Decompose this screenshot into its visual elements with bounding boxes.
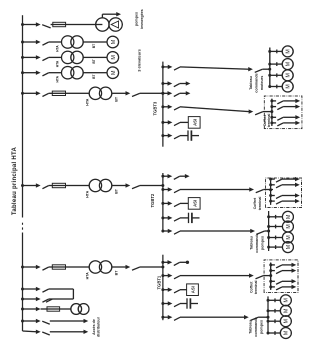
svg-text:3 élévateurs: 3 élévateurs [137, 49, 142, 72]
svg-text:terminal: terminal [267, 114, 271, 128]
svg-text:HTA: HTA [86, 190, 90, 198]
svg-text:pompes: pompes [260, 236, 264, 250]
svg-text:Tableau: Tableau [249, 235, 253, 249]
svg-text:BT: BT [115, 270, 119, 276]
svg-text:BT: BT [92, 44, 96, 48]
svg-text:pompes: pompes [135, 12, 139, 26]
svg-text:Coffret: Coffret [249, 281, 253, 293]
svg-text:Coffret: Coffret [253, 197, 257, 209]
svg-text:M: M [286, 224, 292, 228]
svg-text:M: M [284, 331, 290, 335]
svg-text:immergées: immergées [140, 9, 144, 28]
svg-text:HTA: HTA [86, 272, 90, 280]
svg-text:terminal: terminal [258, 197, 262, 211]
svg-text:M: M [286, 215, 292, 219]
svg-text:BT: BT [92, 59, 96, 63]
svg-text:ASI: ASI [191, 286, 196, 293]
svg-text:Accès de: Accès de [92, 319, 96, 335]
svg-text:M: M [111, 70, 117, 75]
svg-text:Tableau: Tableau [249, 75, 253, 89]
svg-text:M: M [284, 298, 290, 302]
svg-text:BT: BT [92, 75, 96, 79]
svg-text:M: M [111, 55, 117, 60]
svg-text:M: M [284, 319, 290, 323]
svg-text:M: M [284, 309, 290, 313]
svg-text:M: M [286, 245, 292, 249]
svg-text:HTA: HTA [86, 98, 90, 106]
svg-text:distributeur: distributeur [97, 316, 101, 337]
svg-text:TGBT2: TGBT2 [150, 193, 155, 207]
svg-text:commande: commande [255, 73, 259, 92]
svg-text:M: M [286, 49, 292, 53]
svg-text:moteurs: moteurs [260, 76, 264, 91]
svg-text:Tableau principal HTA: Tableau principal HTA [12, 146, 18, 215]
svg-text:HTA: HTA [56, 75, 60, 82]
svg-text:M: M [286, 73, 292, 77]
svg-text:HTA: HTA [56, 45, 60, 52]
svg-text:TGBT3: TGBT3 [153, 101, 158, 115]
svg-text:TGBT1: TGBT1 [156, 275, 161, 289]
svg-text:M: M [286, 84, 292, 88]
svg-text:M: M [111, 39, 117, 44]
svg-text:ASI: ASI [192, 200, 197, 207]
svg-text:terminal: terminal [254, 280, 258, 294]
svg-text:HTA: HTA [56, 60, 60, 67]
svg-text:M: M [286, 62, 292, 66]
svg-text:ASI: ASI [192, 119, 197, 126]
svg-text:commande: commande [255, 233, 259, 252]
svg-text:M: M [286, 235, 292, 239]
svg-text:BT: BT [115, 188, 119, 194]
svg-text:commande: commande [254, 317, 258, 336]
svg-text:Tableau: Tableau [248, 319, 252, 333]
svg-text:BT: BT [115, 96, 119, 102]
svg-text:pompes: pompes [259, 320, 263, 334]
